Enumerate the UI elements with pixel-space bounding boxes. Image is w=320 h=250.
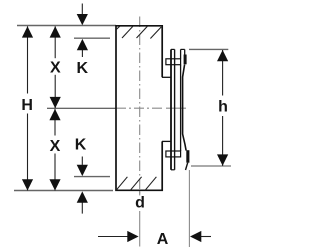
extension line: mid X boundary <box>47 107 116 109</box>
dimension K lower: up arrow below plate <box>81 203 83 214</box>
bracket: plate edge jog bottom <box>162 140 171 142</box>
svg-text:h: h <box>218 99 228 116</box>
dimension X lower line <box>54 109 56 191</box>
bottom tab <box>166 151 181 157</box>
bracket: plate edge jog top <box>162 76 171 78</box>
extension line: upper K <box>74 37 110 39</box>
extension line: A right <box>188 170 190 247</box>
dimension K upper: up arrow below K line <box>81 50 83 57</box>
hatch top band <box>116 26 161 38</box>
extension line: plate top edge <box>17 25 116 27</box>
svg-text:K: K <box>75 137 87 154</box>
svg-text:X: X <box>50 138 61 155</box>
vertical centerline (pipe axis) <box>139 17 141 247</box>
svg-text:H: H <box>21 97 33 114</box>
dimension H arrows <box>22 26 33 37</box>
svg-text:X: X <box>50 59 61 76</box>
svg-text:K: K <box>77 60 89 77</box>
horizontal centerline <box>116 107 163 109</box>
dimension A right arrow <box>201 236 212 238</box>
nut block bottom <box>186 150 189 163</box>
plate outline (section) <box>116 26 162 191</box>
svg-text:A: A <box>157 231 169 248</box>
dimension X upper arrows <box>50 26 61 37</box>
extension line: plate bottom edge <box>14 190 113 192</box>
dimension K upper: down arrow above plate <box>81 4 83 15</box>
dimension K lower: down arrow above K line <box>81 157 83 165</box>
extension line: lower K <box>74 176 110 178</box>
dimension h arrows <box>217 50 228 61</box>
dimension X lower arrows <box>49 109 60 120</box>
rail front profile <box>181 49 188 170</box>
extension line: h top <box>189 48 228 50</box>
nut block top <box>184 55 187 65</box>
svg-text:d: d <box>135 195 145 212</box>
dimension A left arrow <box>98 236 128 238</box>
extension line: h bottom <box>191 165 231 167</box>
rail bars <box>171 49 175 169</box>
dimension X upper line <box>54 26 56 108</box>
top tab <box>166 59 181 65</box>
dimension h line <box>222 50 224 166</box>
hatch bottom band <box>116 177 156 190</box>
dimension H line <box>27 26 29 190</box>
